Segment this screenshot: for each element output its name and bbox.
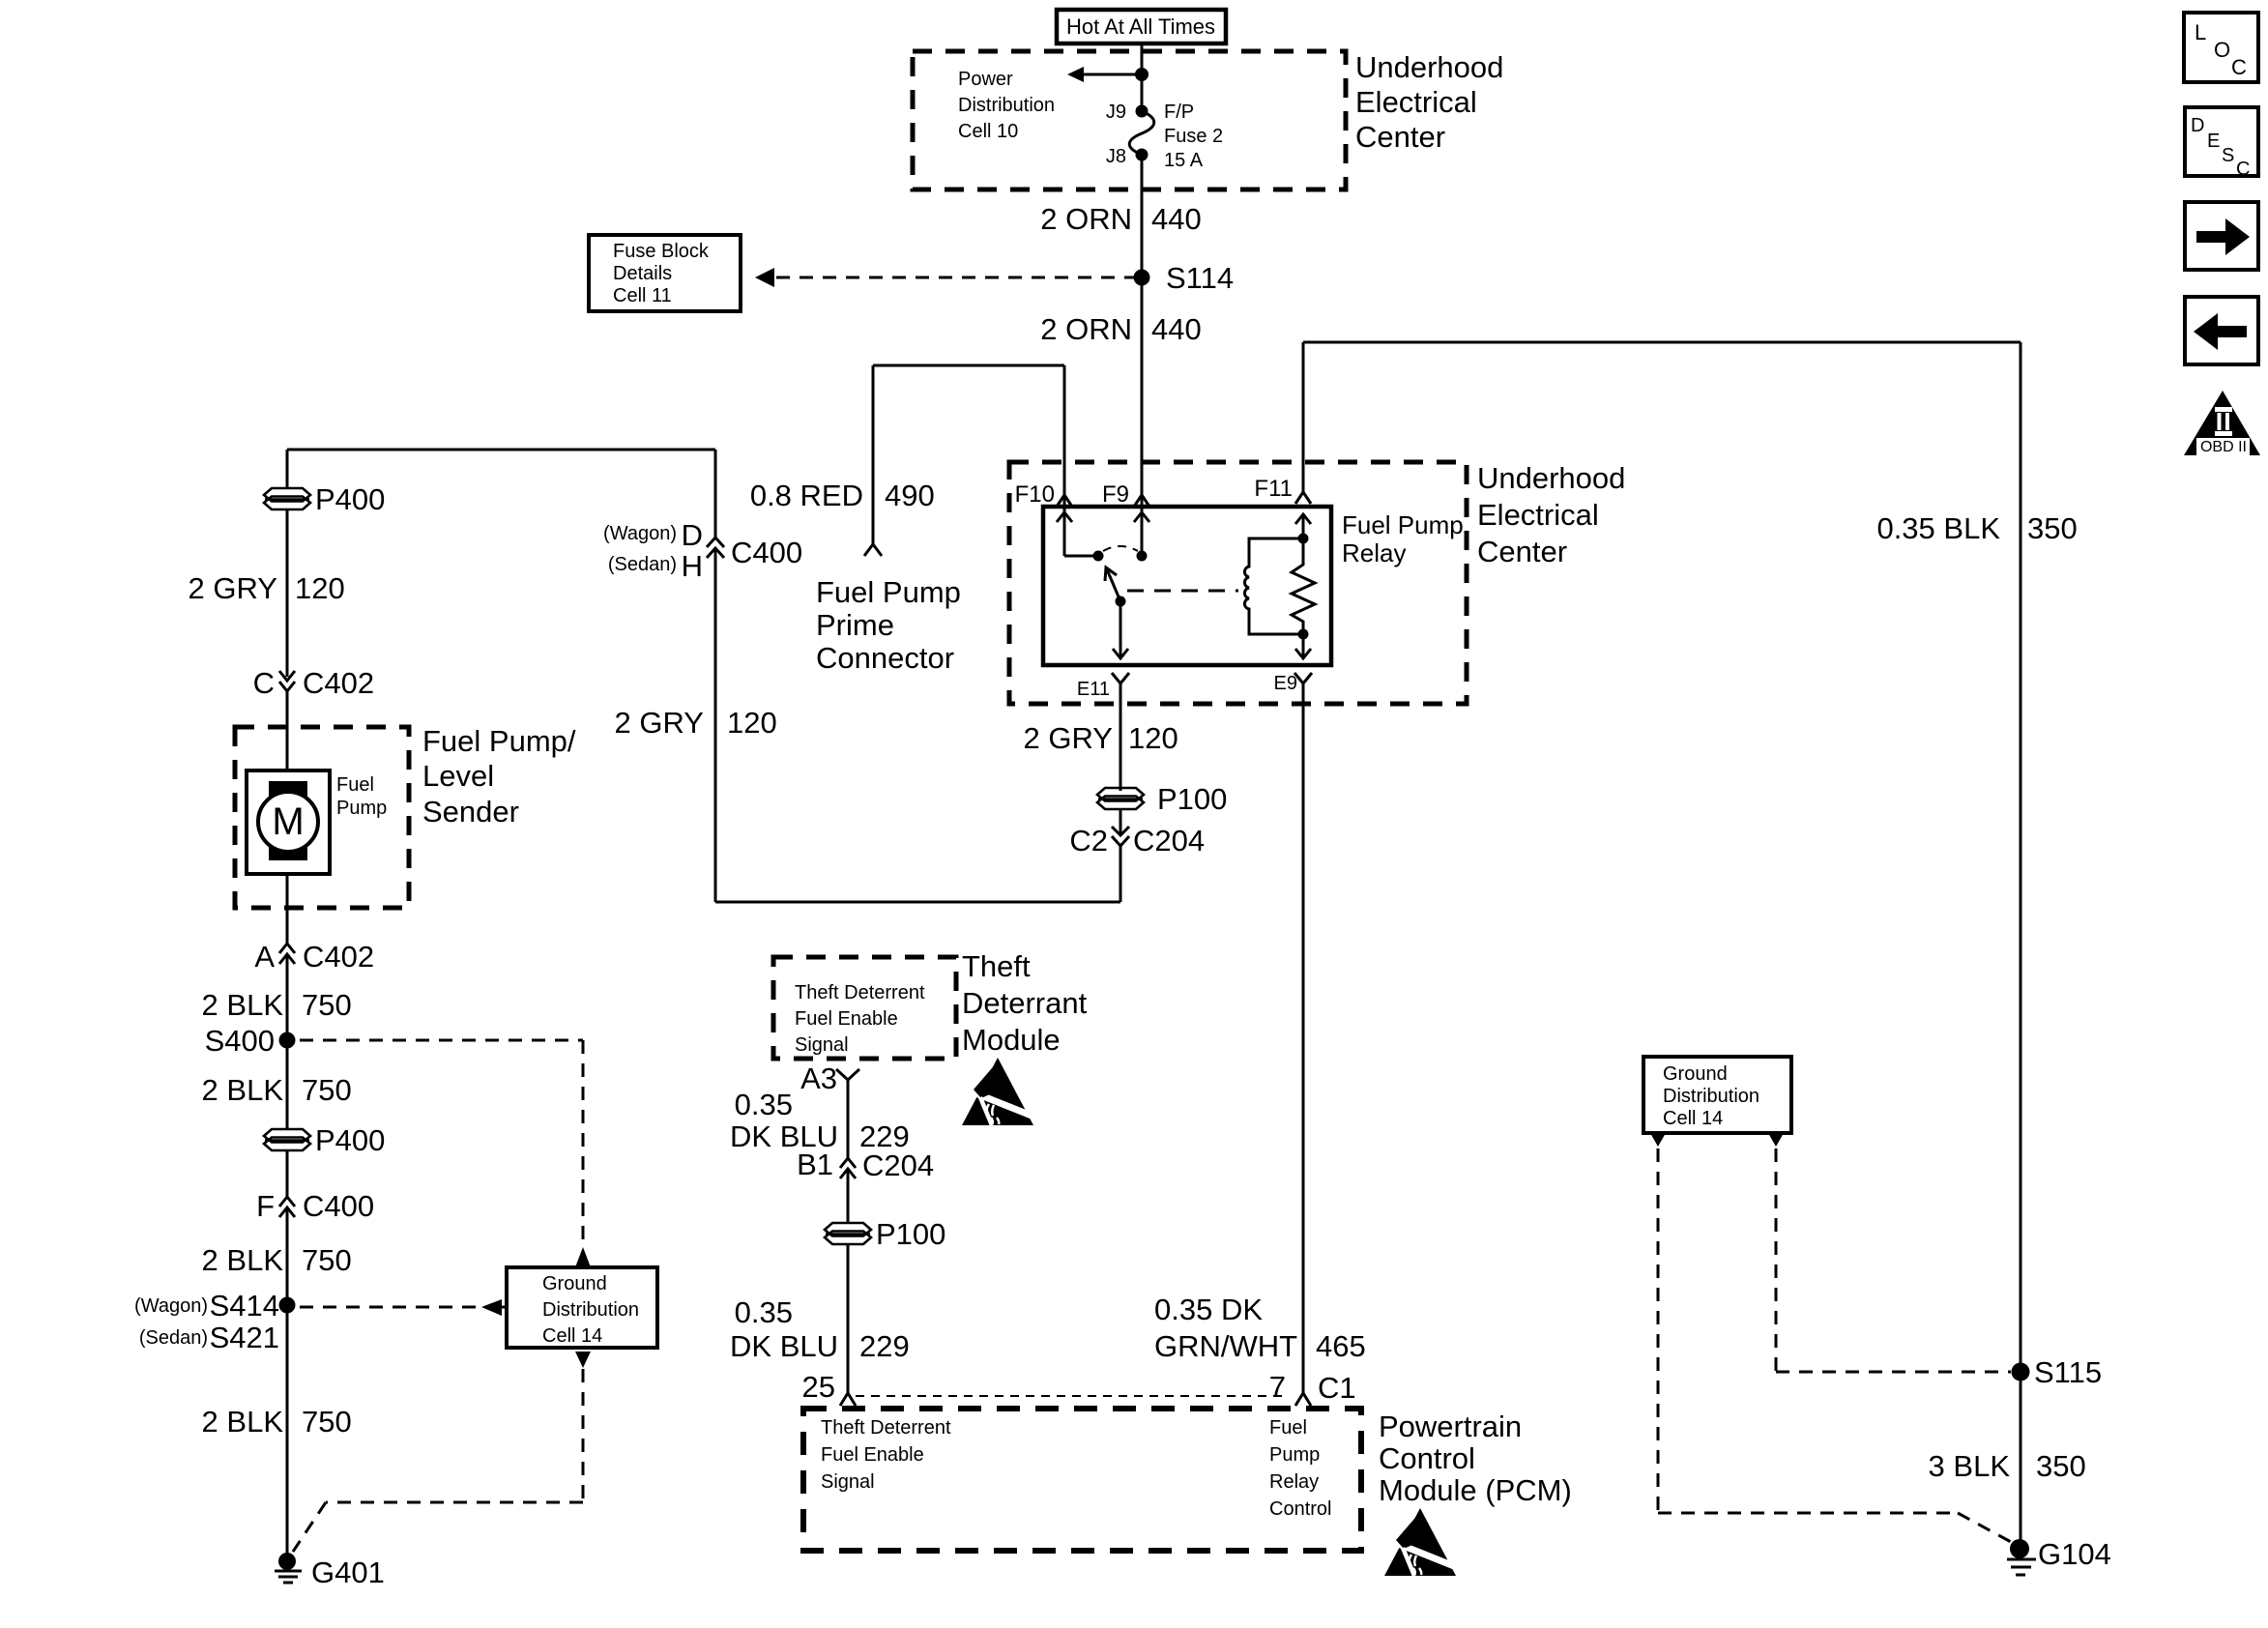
svg-text:Hot At All Times: Hot At All Times bbox=[1066, 15, 1215, 39]
svg-text:Fuel: Fuel bbox=[336, 774, 374, 796]
svg-text:Deterrant: Deterrant bbox=[962, 986, 1088, 1020]
svg-text:Distribution: Distribution bbox=[1663, 1086, 1759, 1107]
svg-text:D: D bbox=[2191, 115, 2204, 136]
svg-text:(Wagon): (Wagon) bbox=[603, 523, 677, 544]
svg-text:S114: S114 bbox=[1166, 261, 1234, 295]
svg-text:Module: Module bbox=[962, 1023, 1061, 1057]
svg-text:440: 440 bbox=[1151, 312, 1202, 346]
svg-text:GRN/WHT: GRN/WHT bbox=[1154, 1329, 1297, 1363]
svg-text:M: M bbox=[272, 800, 304, 843]
svg-text:C: C bbox=[2231, 55, 2247, 79]
svg-text:S115: S115 bbox=[2034, 1355, 2102, 1389]
svg-text:7: 7 bbox=[1269, 1370, 1286, 1404]
svg-text:P100: P100 bbox=[876, 1217, 945, 1251]
svg-text:120: 120 bbox=[727, 706, 777, 740]
svg-text:(Wagon): (Wagon) bbox=[134, 1295, 208, 1317]
svg-text:0.8 RED: 0.8 RED bbox=[750, 479, 863, 512]
svg-text:Pump: Pump bbox=[1269, 1444, 1320, 1466]
svg-text:750: 750 bbox=[302, 1243, 352, 1277]
svg-text:2 ORN: 2 ORN bbox=[1040, 312, 1132, 346]
svg-text:Fuse Block: Fuse Block bbox=[613, 241, 710, 262]
svg-text:465: 465 bbox=[1316, 1329, 1366, 1363]
svg-text:F: F bbox=[256, 1189, 275, 1223]
svg-text:Cell 11: Cell 11 bbox=[613, 285, 672, 306]
svg-text:S421: S421 bbox=[210, 1321, 279, 1354]
svg-text:C204: C204 bbox=[862, 1148, 934, 1182]
svg-text:Relay: Relay bbox=[1269, 1471, 1319, 1493]
svg-text:E11: E11 bbox=[1077, 679, 1110, 700]
svg-text:J8: J8 bbox=[1106, 146, 1126, 167]
svg-text:C402: C402 bbox=[303, 666, 374, 700]
svg-text:350: 350 bbox=[2027, 511, 2078, 545]
svg-text:G104: G104 bbox=[2038, 1537, 2111, 1571]
svg-text:Ground: Ground bbox=[542, 1273, 607, 1294]
svg-text:120: 120 bbox=[295, 571, 345, 605]
svg-text:F/P: F/P bbox=[1164, 102, 1194, 123]
svg-text:Details: Details bbox=[613, 263, 672, 284]
svg-text:G401: G401 bbox=[311, 1555, 385, 1589]
svg-text:Fuel Pump: Fuel Pump bbox=[1342, 510, 1464, 539]
svg-text:C: C bbox=[2236, 159, 2250, 180]
svg-text:2 GRY: 2 GRY bbox=[189, 571, 277, 605]
svg-text:2 BLK: 2 BLK bbox=[202, 988, 284, 1022]
svg-text:750: 750 bbox=[302, 988, 352, 1022]
svg-text:L: L bbox=[2195, 20, 2206, 44]
svg-text:C400: C400 bbox=[303, 1189, 374, 1223]
svg-text:440: 440 bbox=[1151, 202, 1202, 236]
svg-text:Ground: Ground bbox=[1663, 1063, 1728, 1085]
svg-text:Fuel: Fuel bbox=[1269, 1417, 1307, 1439]
svg-text:S: S bbox=[2222, 145, 2234, 166]
svg-text:B1: B1 bbox=[797, 1148, 833, 1181]
svg-text:229: 229 bbox=[859, 1329, 910, 1363]
svg-text:OBD II: OBD II bbox=[2200, 439, 2247, 455]
svg-text:A3: A3 bbox=[800, 1061, 837, 1095]
svg-text:Theft: Theft bbox=[962, 949, 1031, 983]
svg-text:E: E bbox=[2207, 131, 2220, 152]
svg-text:Theft Deterrent: Theft Deterrent bbox=[795, 982, 925, 1003]
svg-text:A: A bbox=[254, 940, 275, 974]
svg-text:Signal: Signal bbox=[795, 1034, 849, 1056]
svg-text:Level: Level bbox=[422, 759, 494, 793]
svg-text:D: D bbox=[682, 518, 703, 552]
svg-text:Sender: Sender bbox=[422, 795, 519, 829]
svg-text:H: H bbox=[682, 549, 703, 583]
svg-text:0.35: 0.35 bbox=[735, 1088, 793, 1121]
svg-text:Powertrain: Powertrain bbox=[1379, 1410, 1522, 1443]
svg-text:490: 490 bbox=[885, 479, 935, 512]
svg-text:P100: P100 bbox=[1157, 782, 1227, 816]
svg-text:Distribution: Distribution bbox=[542, 1299, 639, 1321]
svg-text:Theft Deterrent: Theft Deterrent bbox=[821, 1417, 951, 1439]
svg-text:F11: F11 bbox=[1254, 476, 1293, 502]
svg-text:Module (PCM): Module (PCM) bbox=[1379, 1473, 1572, 1507]
svg-text:Fuel Enable: Fuel Enable bbox=[795, 1008, 898, 1030]
svg-text:25: 25 bbox=[802, 1370, 835, 1404]
svg-text:2 BLK: 2 BLK bbox=[202, 1405, 284, 1439]
svg-text:Fuel Enable: Fuel Enable bbox=[821, 1444, 924, 1466]
svg-text:0.35: 0.35 bbox=[735, 1295, 793, 1329]
svg-text:2 ORN: 2 ORN bbox=[1040, 202, 1132, 236]
svg-text:S414: S414 bbox=[210, 1289, 279, 1323]
svg-text:E9: E9 bbox=[1274, 673, 1297, 694]
svg-text:F9: F9 bbox=[1102, 481, 1129, 508]
svg-text:0.35 DK: 0.35 DK bbox=[1154, 1293, 1263, 1326]
svg-text:C400: C400 bbox=[731, 536, 802, 569]
svg-text:120: 120 bbox=[1128, 721, 1178, 755]
svg-text:Fuel Pump/: Fuel Pump/ bbox=[422, 724, 576, 758]
svg-text:Fuel Pump: Fuel Pump bbox=[816, 575, 961, 609]
svg-text:Prime: Prime bbox=[816, 608, 894, 642]
svg-text:Cell 10: Cell 10 bbox=[958, 121, 1018, 142]
svg-text:S400: S400 bbox=[205, 1024, 275, 1058]
svg-text:Pump: Pump bbox=[336, 798, 387, 819]
svg-text:3 BLK: 3 BLK bbox=[1929, 1449, 2011, 1483]
svg-text:Relay: Relay bbox=[1342, 538, 1406, 567]
svg-text:15 A: 15 A bbox=[1164, 150, 1204, 171]
svg-text:2 GRY: 2 GRY bbox=[615, 706, 704, 740]
svg-text:Electrical: Electrical bbox=[1355, 85, 1477, 119]
svg-text:(Sedan): (Sedan) bbox=[139, 1327, 208, 1349]
svg-text:0.35 BLK: 0.35 BLK bbox=[1876, 511, 2000, 545]
svg-text:Underhood: Underhood bbox=[1477, 461, 1625, 495]
svg-text:Signal: Signal bbox=[821, 1471, 875, 1493]
svg-text:750: 750 bbox=[302, 1073, 352, 1107]
svg-text:Underhood: Underhood bbox=[1355, 50, 1503, 84]
svg-text:C2: C2 bbox=[1069, 824, 1108, 858]
svg-text:2 BLK: 2 BLK bbox=[202, 1073, 284, 1107]
svg-text:C1: C1 bbox=[1318, 1371, 1356, 1405]
svg-text:DK BLU: DK BLU bbox=[730, 1329, 838, 1363]
svg-text:Connector: Connector bbox=[816, 641, 954, 675]
svg-text:750: 750 bbox=[302, 1405, 352, 1439]
svg-text:C204: C204 bbox=[1133, 824, 1205, 858]
svg-text:P400: P400 bbox=[315, 1123, 385, 1157]
svg-text:Distribution: Distribution bbox=[958, 95, 1055, 116]
svg-text:Center: Center bbox=[1355, 120, 1445, 154]
svg-text:2 BLK: 2 BLK bbox=[202, 1243, 284, 1277]
svg-text:Electrical: Electrical bbox=[1477, 498, 1599, 532]
svg-text:J9: J9 bbox=[1106, 102, 1126, 123]
svg-text:Control: Control bbox=[1379, 1441, 1475, 1475]
svg-text:C402: C402 bbox=[303, 940, 374, 974]
svg-text:Cell 14: Cell 14 bbox=[542, 1325, 602, 1347]
svg-text:350: 350 bbox=[2036, 1449, 2086, 1483]
svg-text:P400: P400 bbox=[315, 482, 385, 516]
svg-text:O: O bbox=[2214, 38, 2230, 62]
svg-text:Fuse 2: Fuse 2 bbox=[1164, 126, 1223, 147]
svg-text:Power: Power bbox=[958, 69, 1013, 90]
svg-text:C: C bbox=[253, 666, 275, 700]
svg-text:2 GRY: 2 GRY bbox=[1024, 721, 1113, 755]
svg-text:Center: Center bbox=[1477, 535, 1567, 568]
svg-text:(Sedan): (Sedan) bbox=[608, 554, 677, 575]
svg-text:Control: Control bbox=[1269, 1498, 1331, 1520]
svg-text:F10: F10 bbox=[1015, 481, 1055, 508]
svg-text:Cell 14: Cell 14 bbox=[1663, 1108, 1723, 1129]
